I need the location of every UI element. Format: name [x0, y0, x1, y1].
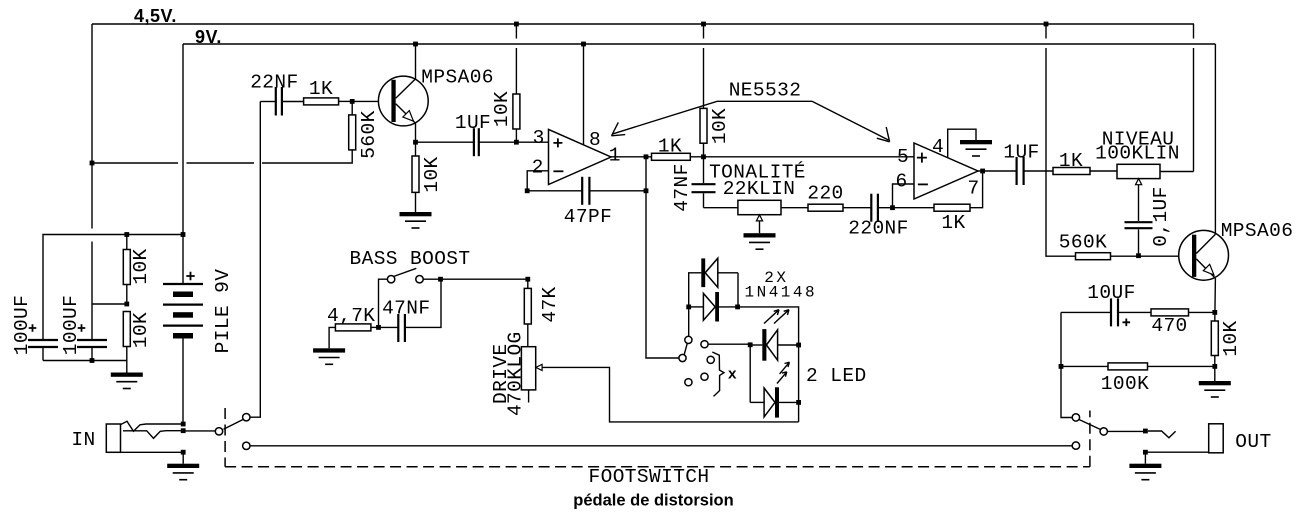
- resistor R10 1K: [934, 204, 970, 211]
- wire 4,5V bias tap: [92, 150, 352, 163]
- junction bias tap: [90, 161, 95, 166]
- svg-text:5: 5: [897, 146, 909, 168]
- junction led rail top: [748, 342, 753, 347]
- svg-text:22NF: 22NF: [250, 72, 298, 94]
- svg-text:10K: 10K: [130, 248, 152, 284]
- wire divider mid: [92, 303, 127, 305]
- resistor R13 10K: [1211, 321, 1218, 366]
- wire bypass line: [250, 445, 1072, 447]
- junction op1 pin3 node: [514, 140, 519, 145]
- op-amp U1B: [914, 143, 978, 199]
- junction D2 left: [686, 305, 691, 310]
- svg-text:4,5V.: 4,5V.: [134, 6, 177, 26]
- junction jack sleeve: [181, 450, 186, 455]
- wire Q1 emitter: [415, 123, 417, 156]
- wire R9 to C7: [843, 207, 871, 209]
- ground U1B: [960, 140, 992, 156]
- svg-text:560K: 560K: [1059, 232, 1107, 254]
- resistor R4 560K: [349, 101, 356, 149]
- svg-text:47K: 47K: [539, 286, 561, 322]
- wire pin4 ground: [948, 129, 976, 157]
- svg-text:10UF: 10UF: [1087, 282, 1135, 304]
- resistor R15 100K: [1061, 363, 1215, 370]
- svg-text:8: 8: [589, 129, 601, 151]
- resistor R11 1K: [1053, 168, 1090, 175]
- svg-text:9V.: 9V.: [195, 27, 222, 47]
- svg-text:470: 470: [1151, 315, 1187, 337]
- junction output ground node: [1212, 364, 1217, 369]
- junction pin6 node: [890, 205, 895, 210]
- svg-text:PILE 9V: PILE 9V: [212, 269, 234, 354]
- svg-text:4: 4: [932, 136, 944, 158]
- ground R16: [313, 348, 345, 364]
- capacitor C7 220NF: [871, 194, 892, 222]
- wire jack sleeve ground stem: [182, 452, 184, 464]
- led D4: [750, 362, 798, 417]
- svg-text:MPSA06: MPSA06: [1221, 220, 1294, 242]
- capacitor C9 0.1UF: [1125, 222, 1153, 256]
- potentiometer P3 DRIVE: [521, 347, 542, 403]
- selector throw diodes: [685, 336, 692, 343]
- svg-text:0,1UF: 0,1UF: [1150, 186, 1172, 247]
- resistor R12 560K: [1076, 253, 1111, 260]
- capacitor C4 1UF: [474, 128, 517, 156]
- wire jack to footswitch: [186, 430, 216, 432]
- transistor Q1 MPSA06: [378, 76, 428, 126]
- wire R11 to P2: [1090, 170, 1117, 172]
- ground output stage: [1199, 381, 1231, 397]
- svg-text:NE5532: NE5532: [729, 79, 802, 101]
- footswitch pole A lever: [224, 420, 244, 430]
- wire R10 to output: [970, 171, 983, 208]
- wire Q2 emitter: [1214, 278, 1217, 321]
- svg-text:1K: 1K: [658, 136, 682, 158]
- svg-text:MPSA06: MPSA06: [421, 67, 494, 89]
- selector common: [679, 354, 686, 361]
- capacitor C5 47PF: [582, 177, 589, 205]
- wire battery top rail: [43, 235, 183, 341]
- resistor R8 10K: [700, 24, 707, 157]
- wire S2 left drop: [379, 279, 388, 327]
- footswitch pole B common: [1100, 428, 1107, 435]
- junction pin8 9V: [581, 42, 586, 47]
- transistor Q2 MPSA06: [1179, 230, 1229, 280]
- svg-text:1UF: 1UF: [1003, 142, 1039, 164]
- capacitor C3 22NF: [260, 87, 303, 116]
- selector unused 1: [707, 356, 714, 363]
- wire feedback bottom: [527, 190, 646, 192]
- svg-text:1K: 1K: [309, 78, 333, 100]
- wire Q1 base: [352, 100, 391, 102]
- junction OUT sleeve: [1143, 450, 1148, 455]
- junction C11 left: [376, 325, 381, 330]
- junction D4 right: [796, 400, 801, 405]
- svg-text:220NF: 220NF: [848, 218, 909, 240]
- junction U1A output: [644, 154, 649, 159]
- resistor R3 1K: [304, 98, 353, 105]
- svg-text:220: 220: [807, 183, 843, 205]
- svg-text:pédale de distorsion: pédale de distorsion: [573, 492, 733, 510]
- jack J1 IN: [106, 421, 181, 452]
- wire Q1 collector: [415, 44, 417, 79]
- svg-text:47PF: 47PF: [564, 206, 612, 228]
- selector brace: [712, 352, 724, 396]
- footswitch pole B throw bypass: [1072, 442, 1079, 449]
- junction D3 right: [796, 343, 801, 348]
- wire 4,5V left drop: [91, 24, 93, 340]
- wire led left rail: [749, 345, 751, 403]
- junction U1B output: [980, 169, 985, 174]
- junction R15 left: [1059, 364, 1064, 369]
- capacitor C6 47NF: [692, 157, 716, 208]
- svg-text:10K: 10K: [491, 91, 513, 127]
- wire tone to feedback R10: [893, 207, 935, 209]
- wire 9V rail: [183, 43, 1215, 45]
- junction feedback bottom: [644, 188, 649, 193]
- junction divider mid: [124, 302, 129, 307]
- selector lever: [684, 344, 687, 355]
- wire D2 left lead: [689, 306, 704, 308]
- wire R14 to C10: [1118, 311, 1151, 313]
- junction feedback left: [525, 188, 530, 193]
- junction R8 4,5V: [701, 22, 706, 27]
- wire diode right rail: [737, 273, 739, 307]
- resistor R1 10K: [123, 235, 130, 305]
- diode D1 1N4148: [701, 258, 738, 287]
- ground P1: [744, 233, 776, 249]
- wire S2 to R17: [423, 278, 528, 280]
- svg-text:10K: 10K: [709, 108, 731, 144]
- dashed footswitch boundary bottom: [225, 466, 1090, 468]
- capacitor C8 1UF: [1017, 157, 1053, 185]
- junction jack ring: [181, 428, 186, 433]
- selector unused 2: [701, 373, 708, 380]
- junction battery plus: [181, 232, 186, 237]
- resistor R14 470: [1151, 309, 1189, 316]
- wire 4,5V to R12: [1046, 24, 1076, 256]
- dashed footswitch boundary left: [224, 408, 226, 467]
- resistor R7 1K: [652, 153, 691, 160]
- resistor R16 4,7K: [329, 324, 378, 348]
- ground output jack: [1129, 464, 1161, 480]
- wire NIVEAU to 4,5V: [1193, 24, 1195, 172]
- wire diodes to led rail: [738, 307, 799, 422]
- resistor R17 47K: [524, 279, 531, 347]
- svg-text:100KLIN: 100KLIN: [1095, 143, 1180, 165]
- junction C2 bottom: [90, 358, 95, 363]
- wire wiper drop: [1138, 185, 1140, 221]
- junction Q1 emitter: [413, 140, 418, 145]
- wire U1A out: [611, 156, 652, 158]
- capacitor C1 100UF: [28, 324, 58, 360]
- wire Q2 collector: [1214, 44, 1216, 234]
- wire diode left rail: [689, 273, 702, 337]
- junction Q1 collector 9V: [413, 42, 418, 47]
- junction R17 top: [525, 277, 530, 282]
- svg-text:100K: 100K: [1101, 373, 1149, 395]
- callout NE5532 right pointer: [812, 101, 890, 142]
- switch S2 bass boost: [387, 268, 423, 283]
- battery B1 PILE 9V: [163, 235, 203, 422]
- junction R8 bottom: [701, 154, 706, 159]
- wire selector to leds: [708, 343, 750, 345]
- footswitch pole B throw effect: [1072, 414, 1079, 421]
- junction divider top: [124, 232, 129, 237]
- svg-text:560K: 560K: [358, 110, 380, 158]
- svg-text:470KLOG: 470KLOG: [505, 331, 527, 416]
- wire U1B out: [978, 170, 1017, 172]
- junction D2 right: [735, 305, 740, 310]
- junction Q1 base node: [350, 99, 355, 104]
- potentiometer P2 NIVEAU: [1117, 164, 1194, 184]
- dashed footswitch boundary right: [1089, 411, 1091, 467]
- resistor R9 220: [808, 204, 843, 211]
- junction OUT tip: [1143, 429, 1148, 434]
- wire ground node stem: [1214, 366, 1216, 381]
- footswitch pole A common: [215, 428, 222, 435]
- ground divider: [111, 373, 143, 389]
- led D3: [750, 310, 798, 361]
- selector unused 3: [685, 379, 692, 386]
- svg-text:OUT: OUT: [1235, 431, 1271, 453]
- op-amp U1A: [549, 129, 612, 184]
- svg-text:10K: 10K: [130, 312, 152, 348]
- junction jack tip: [181, 422, 186, 427]
- wire U1A out drop: [646, 191, 679, 358]
- ground Q1 emitter: [400, 212, 432, 228]
- svg-text:1K: 1K: [941, 212, 965, 234]
- svg-text:22KLIN: 22KLIN: [723, 178, 796, 200]
- wire emitter to R14: [1189, 311, 1215, 313]
- svg-text:47NF: 47NF: [671, 163, 693, 211]
- junction R12 4,5V: [1044, 22, 1049, 27]
- junction R6 4,5V: [514, 22, 519, 27]
- wire pole B to jack: [1107, 430, 1145, 432]
- resistor R2 10K: [123, 312, 130, 361]
- callout NE5532 left pointer: [612, 101, 813, 136]
- svg-text:2: 2: [532, 156, 544, 178]
- wire pin8 to 9V: [583, 44, 585, 145]
- svg-text:3: 3: [533, 127, 545, 149]
- wire input riser: [250, 102, 260, 418]
- svg-text:47NF: 47NF: [382, 298, 430, 320]
- wire 4,5V rail: [92, 23, 1194, 25]
- svg-text:100UF: 100UF: [60, 295, 82, 356]
- svg-text:7: 7: [967, 177, 979, 199]
- resistor R5 10K: [412, 156, 419, 212]
- wire 9V left drop: [182, 44, 184, 235]
- wire pin6: [893, 184, 915, 208]
- wire pin2 loop: [527, 171, 548, 191]
- svg-text:100UF: 100UF: [11, 295, 33, 356]
- svg-text:10K: 10K: [421, 156, 443, 192]
- potentiometer P1 22KLIN: [704, 200, 809, 233]
- footswitch pole A throw effect: [243, 414, 250, 421]
- wire feedback riser: [645, 157, 647, 191]
- resistor R6 10K: [513, 24, 520, 142]
- junction Q2 emitter: [1212, 310, 1217, 315]
- svg-text:1N4148: 1N4148: [744, 283, 817, 301]
- junction Q2 base bias: [1136, 253, 1141, 258]
- diode D2 1N4148: [703, 292, 737, 322]
- wire capacitor ground bus: [43, 360, 127, 362]
- ground input jack: [167, 464, 199, 480]
- svg-text:FOOTSWITCH: FOOTSWITCH: [588, 466, 709, 488]
- footswitch pole A throw bypass: [243, 442, 250, 449]
- svg-text:1K: 1K: [1059, 150, 1083, 172]
- capacitor C2 100UF: [77, 324, 107, 360]
- svg-text:BASS BOOST: BASS BOOST: [349, 248, 470, 270]
- svg-text:2 LED: 2 LED: [806, 365, 867, 387]
- wire drive return: [542, 367, 799, 422]
- capacitor C10 10UF: [1061, 298, 1130, 326]
- svg-text:10K: 10K: [1220, 320, 1242, 356]
- wire emitter to C4: [416, 141, 474, 143]
- selector throw leds: [701, 341, 708, 348]
- svg-text:IN: IN: [71, 429, 95, 451]
- capacitor C11 47NF: [379, 279, 442, 342]
- svg-text:x: x: [728, 367, 737, 384]
- footswitch pole B lever: [1079, 420, 1101, 430]
- wire pin3: [516, 141, 548, 143]
- wire divider ground stem: [126, 361, 128, 373]
- wire Q2 base: [1111, 255, 1193, 257]
- svg-text:4,7K: 4,7K: [327, 305, 375, 327]
- junction S2 right: [438, 277, 443, 282]
- svg-text:6: 6: [895, 170, 907, 192]
- wire mid signal: [690, 156, 914, 158]
- svg-text:1UF: 1UF: [455, 112, 491, 134]
- jack J2 OUT: [1145, 424, 1223, 453]
- svg-text:1: 1: [609, 144, 621, 166]
- wire OUT sleeve ground stem: [1144, 452, 1146, 464]
- wire output drop: [1061, 312, 1072, 417]
